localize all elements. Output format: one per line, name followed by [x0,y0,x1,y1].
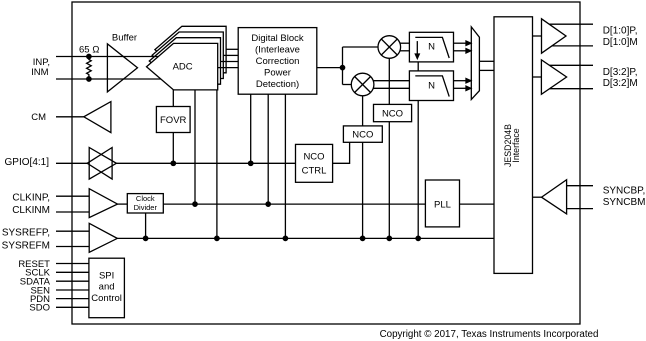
label JESD204B interface [503,124,521,167]
wire SCLK [56,271,89,273]
op-amp sysref buffer [89,223,117,252]
wire NCO lower to sysref [362,142,364,238]
wire ADC4 to digital [226,48,238,50]
wire JESD to SYNCB [533,196,542,198]
svg-text:ADC: ADC [173,61,193,72]
wire mux to JESD b [479,69,494,71]
op-amp output driver T2 [541,60,566,95]
wire M2 to N2 b [373,87,409,89]
wire N1 to N2 [417,62,419,71]
wire mux to JESD a [479,60,494,62]
wire N1 out b [454,50,468,52]
svg-text:Interface: Interface [511,128,521,162]
node mixer feed junction [340,65,344,69]
svg-text:N: N [428,42,435,53]
PLL box [425,180,459,227]
wire digital out [317,67,343,69]
wire sysref line [117,237,494,239]
svg-text:N: N [428,80,435,91]
mixer M1 [378,36,401,59]
resistor R1 65 ohm [87,57,92,80]
op-amp SYNCB receiver [542,180,567,214]
wire to mixer2 [343,84,352,86]
wire clock line [163,203,425,205]
node N2-sysref junction [416,236,420,240]
svg-text:CM: CM [31,112,46,123]
mixer M2 [351,73,374,96]
wire ADC3 to digital [223,54,238,56]
wire SDO [56,306,89,308]
NCO box lower [343,126,382,142]
NCO CTRL box [296,144,333,182]
ADC stack layer 4 [155,26,226,73]
node ADC-clock junction [193,202,197,206]
node divider-sysref junction [143,236,147,240]
svg-text:Correction: Correction [256,56,300,67]
wire digital to clock line [267,94,269,204]
wire PDN [56,298,89,300]
buffer GPIO left-pointing [87,148,112,180]
wire ADC to sysref line [216,90,218,239]
mux [471,27,479,100]
op-amp CM buffer [84,102,111,133]
node NCOlow-sysref junction [360,236,364,240]
node INM-R junction [87,77,91,81]
wire N2 out a [454,80,468,82]
FOVR box [156,107,190,133]
wire N2 out b [454,87,468,89]
wire M1 to NCO upper [388,58,390,104]
svg-text:SYSREFM: SYSREFM [2,240,50,251]
wire to mixer1 [343,46,379,48]
wire M2 to N2 a [373,80,409,82]
wire SDATA [56,280,89,282]
svg-text:FOVR: FOVR [160,115,187,126]
svg-text:SPI: SPI [99,271,114,282]
wire digital to sysref line [284,94,286,238]
wire SYSREFP [56,230,89,232]
wire N1 out a [454,42,468,44]
wire SYNCBM [567,208,593,210]
svg-text:Copyright © 2017, Texas Instru: Copyright © 2017, Texas Instruments Inco… [380,329,599,340]
wire D10P [549,23,593,25]
node digital-sysref junction [283,236,287,240]
svg-text:CTRL: CTRL [302,166,327,177]
digital block U2 [238,28,317,95]
JESD204B interface box [494,17,533,274]
wire ADC1 to digital [218,67,239,69]
chip border [72,2,580,324]
wire D32M [550,88,593,90]
wire GPIO bus [116,162,295,164]
svg-text:D[1:0]P,: D[1:0]P, [603,26,638,37]
wire SEN [56,289,89,291]
svg-text:SYSREFP,: SYSREFP, [2,227,50,238]
ADC stack layer 2 [149,38,220,84]
wire RESET [56,263,89,265]
wire NCO CTRL out [333,142,350,163]
svg-text:Control: Control [91,293,122,304]
wire NCO upper to sysref [388,122,390,239]
wire clkbuf to divider [118,203,128,205]
wire M1 to N1 b [400,50,410,52]
decimation filter N2 [409,71,453,101]
svg-text:and: and [99,282,115,293]
wire JESD to T2 [533,76,542,78]
svg-text:Power: Power [264,67,291,78]
wire CM [56,116,84,118]
wire GPIO in [56,162,87,164]
wire FOVR to GPIO bus [172,133,174,164]
buffer GPIO right-pointing [89,148,116,180]
svg-text:PLL: PLL [434,199,451,210]
svg-text:65 Ω: 65 Ω [79,45,100,56]
wire M2 to NCO lower [362,96,364,126]
ADC U1 front [147,43,218,90]
node FOVR-GPIO junction [171,161,175,165]
svg-text:CLKINM: CLKINM [12,205,50,216]
wire mixer feed vertical [342,47,344,85]
svg-text:SYNCBP,: SYNCBP, [603,185,646,196]
svg-text:Clock: Clock [136,194,155,203]
wire divider to sysref [145,213,147,238]
ADC stack layer 3 [152,32,223,79]
op-amp clock buffer [89,189,117,218]
svg-text:Detection): Detection) [256,79,299,90]
wire SYSREFM [56,246,89,248]
wire INP [56,56,158,58]
SPI box [89,258,125,318]
svg-text:D[3:2]P,: D[3:2]P, [603,67,638,78]
svg-text:(Interleave: (Interleave [255,45,300,56]
svg-text:SDO: SDO [29,303,50,314]
svg-text:NCO: NCO [352,129,373,140]
wire JESD to T1 [533,35,542,37]
svg-text:CLKINP,: CLKINP, [12,192,50,203]
node ADC-sysref junction [215,236,219,240]
NCO box upper [374,104,412,121]
wire PLL to JESD [460,203,495,205]
wire CLKINM [56,211,89,213]
wire N2 to sysref line [417,101,419,239]
node digital-clock junction [266,202,270,206]
op-amp buffer [107,44,137,92]
op-amp output driver T1 [542,19,567,53]
svg-text:D[1:0]M: D[1:0]M [603,37,638,48]
wire SYNCBP [567,185,593,187]
svg-text:Digital Block: Digital Block [251,33,304,44]
wire ADC2 to digital [221,61,239,63]
wire CLKINP [56,195,89,197]
node digital-GPIO junction [249,161,253,165]
svg-text:SYNCBM: SYNCBM [603,197,646,208]
node INP-R junction [87,54,91,58]
svg-text:D[3:2]M: D[3:2]M [603,78,638,89]
wire M1 to N1 a [400,42,410,44]
wire digital to GPIO bus [250,94,252,163]
clock divider box [127,194,163,213]
svg-text:GPIO[4:1]: GPIO[4:1] [5,157,50,168]
wire D32P [550,64,594,66]
decimation filter N1 [409,32,453,62]
wire INM [56,78,161,80]
wire D10M [552,45,593,47]
node NCOup-sysref junction [387,236,391,240]
wire ADC to clock line [194,90,196,204]
svg-text:NCO: NCO [382,108,403,119]
svg-text:NCO: NCO [303,152,324,163]
svg-text:INM: INM [31,67,49,78]
svg-text:Divider: Divider [134,203,158,212]
wire ADC to FOVR [172,90,174,107]
svg-text:Buffer: Buffer [112,32,137,43]
